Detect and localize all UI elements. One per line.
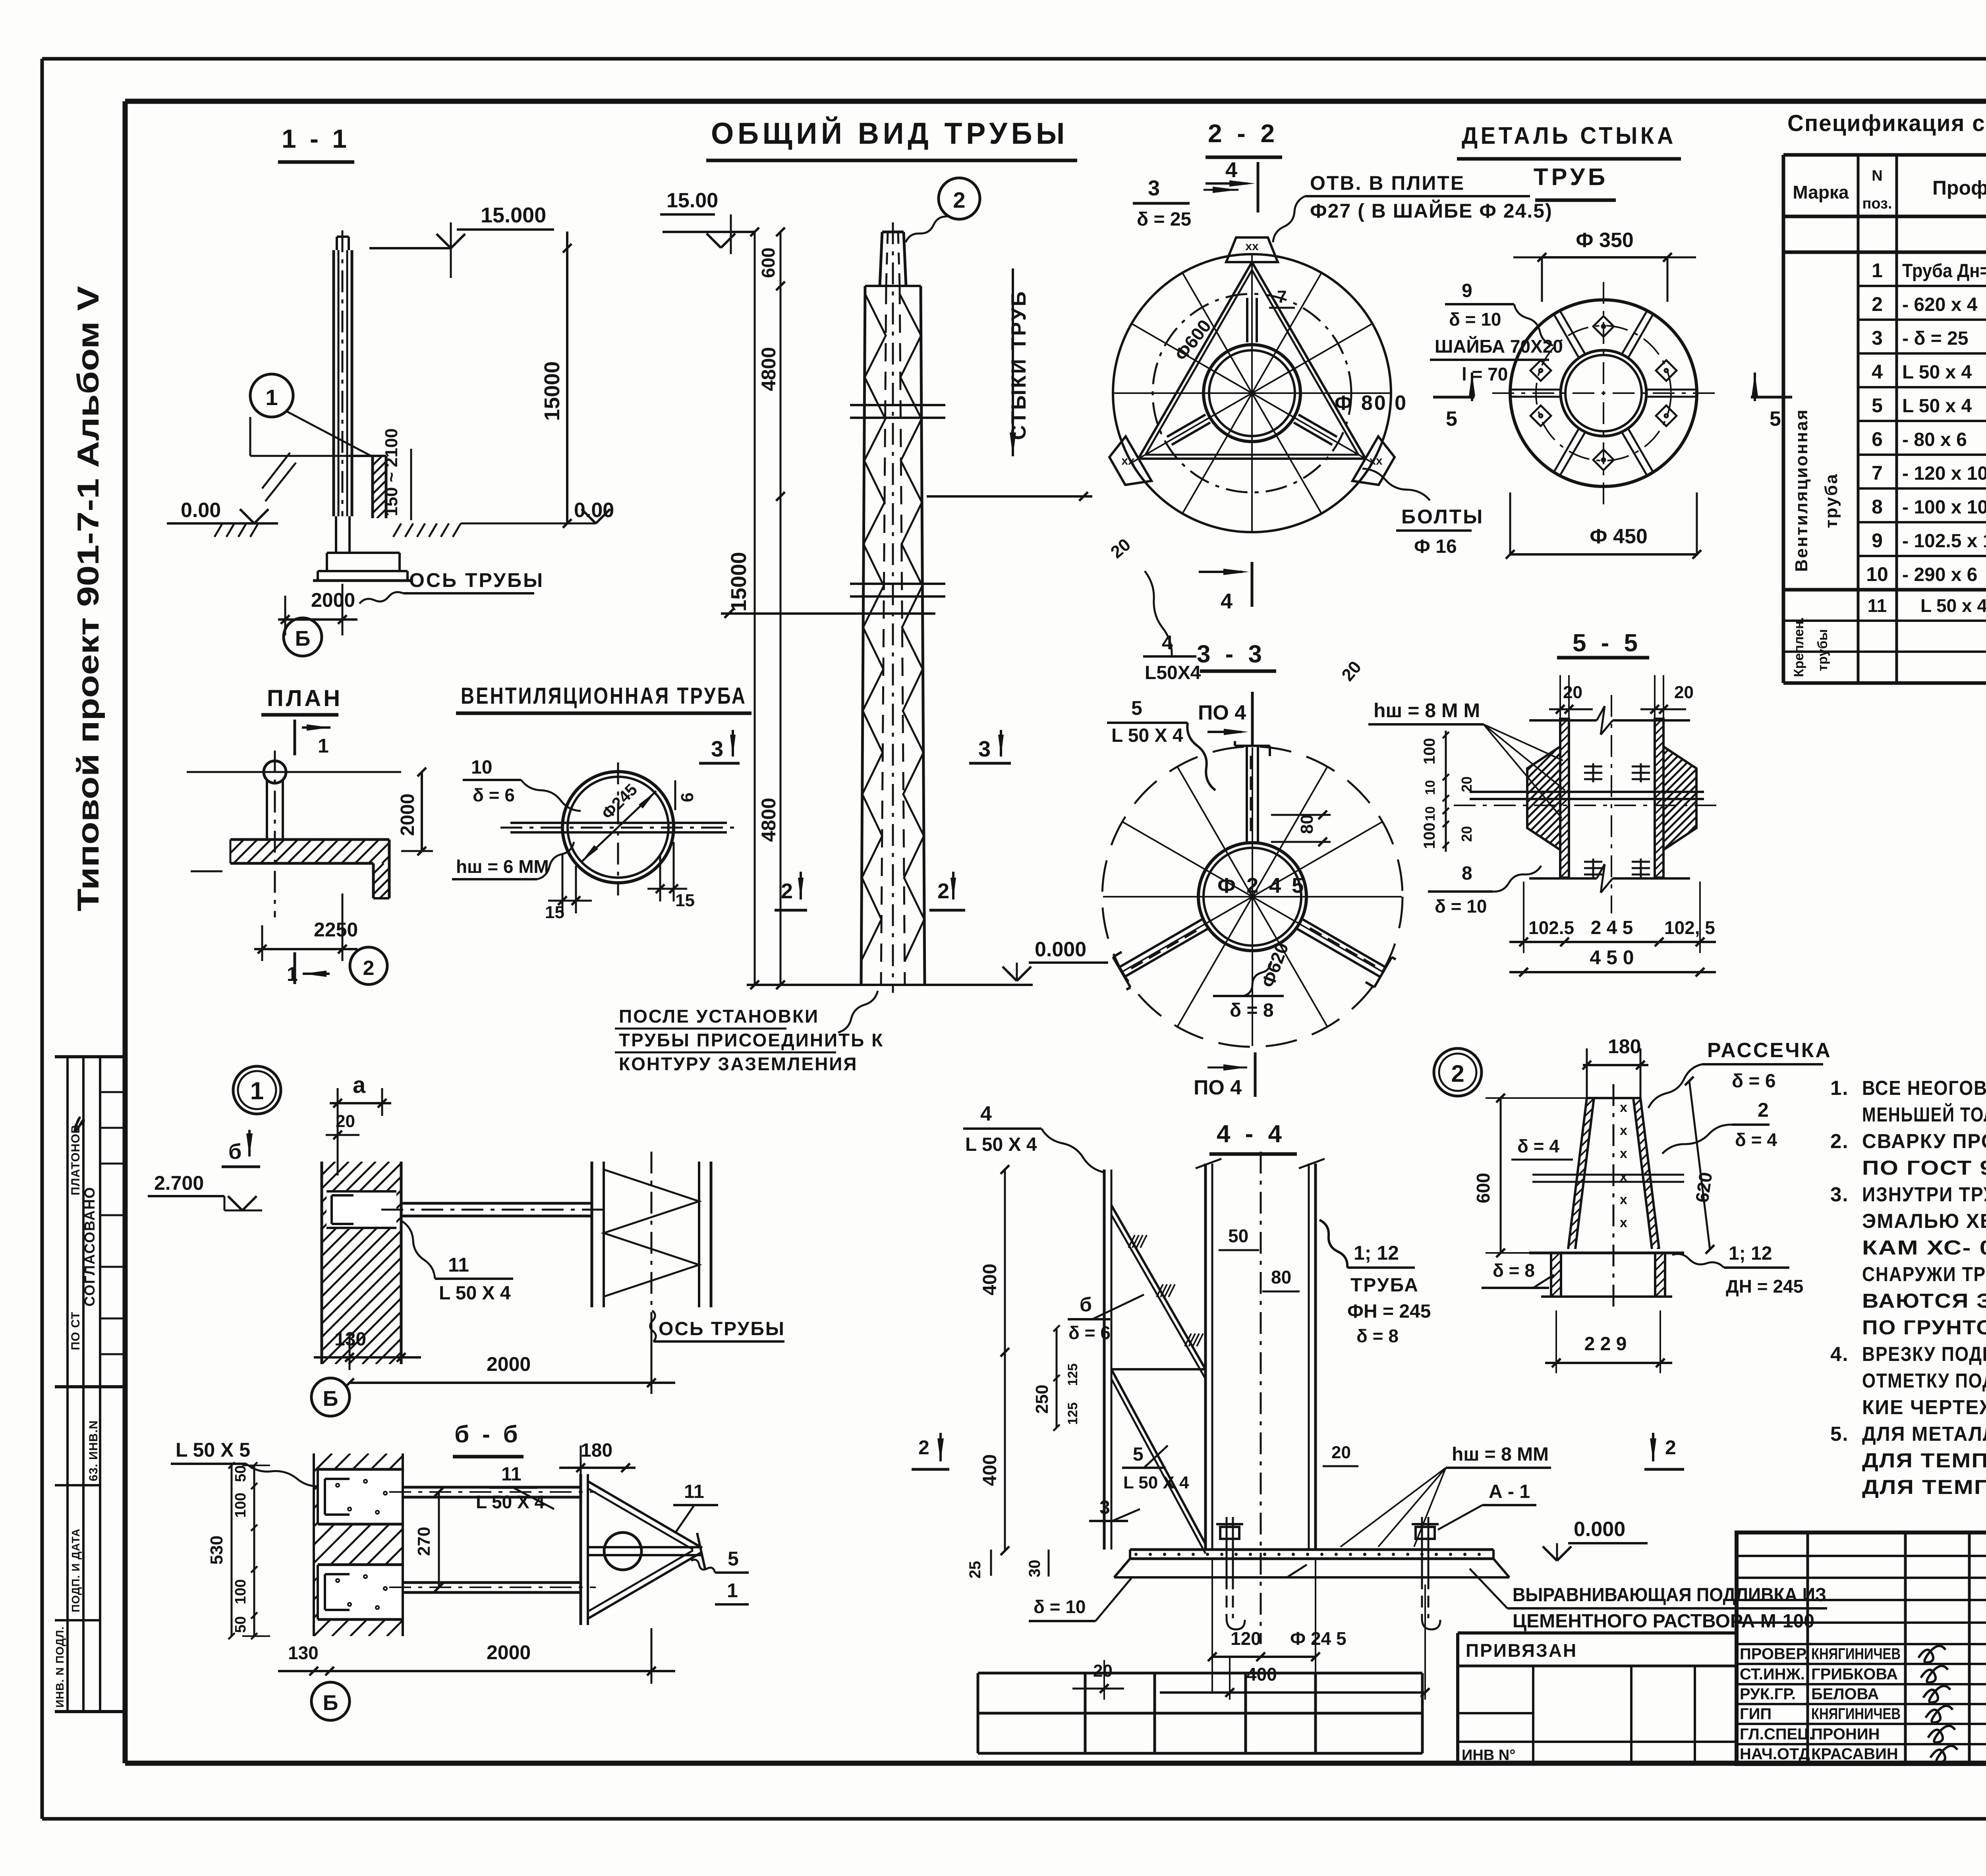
svg-text:ОСЬ ТРУБЫ: ОСЬ ТРУБЫ xyxy=(409,569,544,591)
svg-text:СТЫКИ ТРУБ: СТЫКИ ТРУБ xyxy=(1007,290,1030,440)
svg-text:δ = 4: δ = 4 xyxy=(1517,1136,1559,1156)
svg-text:L 50 X 4: L 50 X 4 xyxy=(1123,1473,1189,1492)
svg-text:20: 20 xyxy=(1331,1443,1351,1462)
svg-text:ГРИБКОВА: ГРИБКОВА xyxy=(1811,1666,1898,1683)
svg-text:100: 100 xyxy=(232,1493,249,1518)
svg-text:20: 20 xyxy=(1459,776,1475,792)
svg-text:- 80 x 6: - 80 x 6 xyxy=(1902,429,1967,450)
svg-text:2: 2 xyxy=(1451,1060,1464,1087)
svg-text:4800: 4800 xyxy=(757,347,780,391)
svg-text:КНЯГИНИЧЕВ: КНЯГИНИЧЕВ xyxy=(1811,1705,1901,1723)
svg-text:КОНТУРУ ЗАЗЕМЛЕНИЯ: КОНТУРУ ЗАЗЕМЛЕНИЯ xyxy=(619,1054,858,1074)
svg-text:4 5 0: 4 5 0 xyxy=(1590,946,1634,969)
svg-text:ТРУБА: ТРУБА xyxy=(1350,1275,1419,1296)
svg-text:- δ = 25: - δ = 25 xyxy=(1902,328,1969,349)
svg-text:1: 1 xyxy=(727,1579,738,1602)
svg-text:ИЗНУТРИ ТРУБА ПОКРЫВАЕТСЯ П: ИЗНУТРИ ТРУБА ПОКРЫВАЕТСЯ ПЕРХЛОРВИНИЛОВ… xyxy=(1862,1183,1986,1206)
svg-text:100: 100 xyxy=(1421,738,1438,764)
svg-text:20: 20 xyxy=(1338,657,1365,685)
svg-text:- 620 x 4: - 620 x 4 xyxy=(1902,294,1978,315)
svg-text:РАССЕЧКА: РАССЕЧКА xyxy=(1707,1039,1832,1062)
svg-text:600: 600 xyxy=(758,247,779,278)
svg-text:ВСЕ НЕОГОВОРЕННЫЕ ШВЫ hШВ = 6: ВСЕ НЕОГОВОРЕННЫЕ ШВЫ hШВ = 6 ММ, НО НЕ … xyxy=(1862,1077,1986,1099)
svg-text:x: x xyxy=(1620,1192,1627,1207)
svg-text:6: 6 xyxy=(678,793,697,802)
svg-text:15000: 15000 xyxy=(540,361,564,421)
svg-text:1: 1 xyxy=(1872,259,1883,282)
svg-text:3: 3 xyxy=(1099,1497,1110,1518)
svg-text:1: 1 xyxy=(250,1077,264,1105)
svg-text:600: 600 xyxy=(1473,1173,1493,1203)
svg-text:L 50 X 5: L 50 X 5 xyxy=(176,1439,250,1461)
svg-text:x: x xyxy=(1620,1123,1627,1138)
svg-text:ФН = 245: ФН = 245 xyxy=(1347,1301,1431,1322)
svg-text:25: 25 xyxy=(966,1561,984,1579)
svg-text:поз.: поз. xyxy=(1862,195,1892,212)
svg-text:80: 80 xyxy=(1297,814,1317,834)
svg-text:ДН = 245: ДН = 245 xyxy=(1726,1276,1803,1297)
svg-text:труба: труба xyxy=(1822,473,1841,528)
svg-text:Марка: Марка xyxy=(1793,182,1849,203)
svg-text:3.: 3. xyxy=(1830,1183,1849,1206)
svg-text:ИНВ N°: ИНВ N° xyxy=(1462,1747,1515,1764)
svg-text:20: 20 xyxy=(336,1112,355,1131)
svg-text:КНЯГИНИЧЕВ: КНЯГИНИЧЕВ xyxy=(1811,1645,1901,1663)
svg-text:δ = 25: δ = 25 xyxy=(1137,209,1191,230)
svg-text:ПО 4: ПО 4 xyxy=(1194,1076,1242,1099)
svg-text:Ф 2 4 5: Ф 2 4 5 xyxy=(1217,874,1306,897)
svg-text:5: 5 xyxy=(728,1548,739,1570)
svg-text:2000: 2000 xyxy=(487,1353,531,1375)
svg-text:L 50 X 4: L 50 X 4 xyxy=(439,1283,511,1304)
svg-text:Профиль: Профиль xyxy=(1932,177,1986,199)
svg-text:ОБЩИЙ ВИД ТРУБЫ: ОБЩИЙ ВИД ТРУБЫ xyxy=(711,116,1068,151)
svg-text:δ = 8: δ = 8 xyxy=(1493,1260,1535,1281)
svg-text:20: 20 xyxy=(1093,1661,1113,1681)
svg-text:КИЕ ЧЕРТЕЖИ.: КИЕ ЧЕРТЕЖИ. xyxy=(1862,1396,1986,1419)
svg-text:2250: 2250 xyxy=(314,919,358,941)
svg-text:5: 5 xyxy=(1872,394,1883,417)
svg-text:ЦЕМЕНТНОГО РАСТВОРА М-100: ЦЕМЕНТНОГО РАСТВОРА М-100 xyxy=(1513,1611,1814,1632)
svg-text:2: 2 xyxy=(1872,293,1883,315)
svg-text:Спецификация стали на 1 штуку: Спецификация стали на 1 штуку каждой мар… xyxy=(1787,110,1986,136)
svg-text:- 290 x 6: - 290 x 6 xyxy=(1902,564,1977,585)
svg-text:530: 530 xyxy=(207,1536,226,1565)
svg-text:2: 2 xyxy=(363,957,375,980)
svg-text:180: 180 xyxy=(1608,1035,1641,1058)
svg-text:СТ.ИНЖ.: СТ.ИНЖ. xyxy=(1740,1666,1805,1683)
svg-text:4: 4 xyxy=(980,1102,992,1125)
svg-text:Ф600: Ф600 xyxy=(1171,316,1215,365)
svg-text:15.000: 15.000 xyxy=(481,203,546,227)
svg-text:10: 10 xyxy=(1423,806,1438,821)
svg-text:1; 12: 1; 12 xyxy=(1354,1242,1399,1264)
svg-text:ДЛЯ ТЕМПЕРАТУР t°Н=-20°С,-30: ДЛЯ ТЕМПЕРАТУР t°Н=-20°С,-30°С - ВСТ 3 К… xyxy=(1862,1449,1986,1472)
svg-text:15: 15 xyxy=(675,891,695,910)
svg-text:hш = 8 ММ: hш = 8 ММ xyxy=(1452,1444,1549,1465)
svg-text:270: 270 xyxy=(414,1527,434,1556)
svg-text:ПРИВЯЗАН: ПРИВЯЗАН xyxy=(1466,1640,1577,1661)
svg-text:А - 1: А - 1 xyxy=(1489,1481,1530,1502)
svg-text:8: 8 xyxy=(1462,863,1472,884)
svg-text:Типовой проект 901-7-1 А: Типовой проект 901-7-1 Альбом V xyxy=(71,286,105,911)
svg-text:Ф620: Ф620 xyxy=(1258,940,1293,990)
svg-text:3: 3 xyxy=(978,736,991,761)
svg-text:ОТМЕТКУ ПОДВОДЯЩИХ ТРУБ СМОТРИ: ОТМЕТКУ ПОДВОДЯЩИХ ТРУБ СМОТРИ ТЕХНОЛОГИ… xyxy=(1862,1369,1986,1392)
svg-text:7: 7 xyxy=(1872,462,1883,484)
svg-text:2: 2 xyxy=(1758,1099,1769,1121)
svg-text:ПО 4: ПО 4 xyxy=(1198,701,1246,724)
svg-text:ПРОНИН: ПРОНИН xyxy=(1811,1725,1880,1743)
svg-text:100: 100 xyxy=(232,1579,249,1604)
svg-text:δ = 10: δ = 10 xyxy=(1449,309,1501,330)
svg-text:Ф 24 5: Ф 24 5 xyxy=(1290,1628,1347,1649)
svg-text:НАЧ.ОТД: НАЧ.ОТД xyxy=(1740,1745,1810,1763)
svg-text:30: 30 xyxy=(1026,1560,1043,1578)
svg-text:ИНВ. N ПОДЛ.: ИНВ. N ПОДЛ. xyxy=(54,1626,66,1708)
svg-text:L 50 X 4: L 50 X 4 xyxy=(1111,725,1183,746)
svg-text:4 - 4: 4 - 4 xyxy=(1217,1120,1286,1148)
svg-text:0.000: 0.000 xyxy=(1574,1518,1625,1541)
svg-text:0.00: 0.00 xyxy=(181,499,221,522)
svg-text:Ф 350: Ф 350 xyxy=(1576,229,1634,252)
svg-text:2.: 2. xyxy=(1830,1130,1849,1152)
svg-text:2.700: 2.700 xyxy=(154,1172,204,1194)
svg-text:L 50 x 4: L 50 x 4 xyxy=(1920,595,1986,616)
svg-text:xx: xx xyxy=(1121,454,1135,467)
svg-text:δ = 4: δ = 4 xyxy=(1735,1129,1777,1150)
svg-text:ПО ГОСТ 9467-75.: ПО ГОСТ 9467-75. xyxy=(1862,1156,1986,1179)
svg-text:L 50 x 4: L 50 x 4 xyxy=(1902,362,1972,383)
svg-text:ВЕНТИЛЯЦИОННАЯ ТРУБА: ВЕНТИЛЯЦИОННАЯ ТРУБА xyxy=(461,683,747,709)
svg-text:4: 4 xyxy=(1872,361,1883,383)
svg-text:Б: Б xyxy=(323,1691,338,1715)
svg-text:400: 400 xyxy=(979,1264,1001,1295)
svg-text:б: б xyxy=(228,1140,241,1164)
svg-text:6: 6 xyxy=(1872,428,1883,450)
svg-text:ВРЕЗКУ ПОДВОДЯЩИХ ТРУБ ВЫПОЛНЯ: ВРЕЗКУ ПОДВОДЯЩИХ ТРУБ ВЫПОЛНЯТЬ ПО МЕСТ… xyxy=(1862,1343,1986,1365)
svg-text:2: 2 xyxy=(937,879,949,903)
svg-text:11: 11 xyxy=(501,1464,522,1485)
svg-text:СВАРКУ ПРОИЗВОДИТЬ ЭЛЕКТРОДА: СВАРКУ ПРОИЗВОДИТЬ ЭЛЕКТРОДАМИ ТИПА Э-42 xyxy=(1862,1130,1986,1152)
svg-text:L 50 x 4: L 50 x 4 xyxy=(1902,396,1972,417)
svg-text:РУК.ГР.: РУК.ГР. xyxy=(1740,1685,1796,1703)
svg-text:3 - 3: 3 - 3 xyxy=(1197,641,1266,668)
svg-text:ПОСЛЕ УСТАНОВКИ: ПОСЛЕ УСТАНОВКИ xyxy=(619,1006,819,1027)
svg-text:180: 180 xyxy=(581,1440,612,1461)
svg-text:δ = 8: δ = 8 xyxy=(1356,1326,1399,1346)
svg-text:ПРОВЕР.: ПРОВЕР. xyxy=(1740,1645,1808,1663)
svg-text:L 50 X 4: L 50 X 4 xyxy=(476,1492,545,1512)
svg-text:3: 3 xyxy=(711,736,723,761)
svg-text:20: 20 xyxy=(1563,683,1582,702)
svg-text:120: 120 xyxy=(1231,1628,1261,1649)
svg-text:5: 5 xyxy=(1446,407,1457,430)
svg-text:МЕНЬШЕЙ ТОЛЩИНЫ СВАРИВАЕМЫХ ЭЛ: МЕНЬШЕЙ ТОЛЩИНЫ СВАРИВАЕМЫХ ЭЛЕМЕНТОВ. xyxy=(1862,1103,1986,1126)
svg-text:l = 70: l = 70 xyxy=(1462,364,1508,384)
svg-text:50: 50 xyxy=(232,1616,249,1633)
svg-text:10: 10 xyxy=(1866,563,1888,585)
svg-text:ВАЮТСЯ ЭМАЛЬЮ ХВ - 1100 (: ВАЮТСЯ ЭМАЛЬЮ ХВ - 1100 ( ГОСТ 6995 -70) xyxy=(1862,1289,1986,1312)
svg-text:3: 3 xyxy=(1148,176,1160,200)
svg-text:5: 5 xyxy=(1131,697,1142,719)
svg-text:hш = 6 ММ: hш = 6 ММ xyxy=(456,856,549,877)
svg-text:N: N xyxy=(1872,168,1882,184)
svg-text:125: 125 xyxy=(1065,1402,1080,1425)
svg-text:15.00: 15.00 xyxy=(667,189,718,212)
svg-text:hш = 8 М М: hш = 8 М М xyxy=(1374,699,1480,722)
svg-text:ВЫРАВНИВАЮЩАЯ ПОДЛИВКА ИЗ: ВЫРАВНИВАЮЩАЯ ПОДЛИВКА ИЗ xyxy=(1513,1585,1826,1606)
svg-text:620: 620 xyxy=(1691,1171,1716,1204)
svg-text:Б: Б xyxy=(323,1387,338,1411)
svg-text:трубы: трубы xyxy=(1815,629,1830,671)
svg-text:11: 11 xyxy=(1868,595,1887,616)
svg-text:ТРУБЫ ПРИСОЕДИНИТЬ К: ТРУБЫ ПРИСОЕДИНИТЬ К xyxy=(619,1030,884,1050)
svg-text:11: 11 xyxy=(684,1481,704,1502)
svg-text:50: 50 xyxy=(232,1465,249,1482)
svg-text:Ф 16: Ф 16 xyxy=(1414,536,1457,557)
svg-text:ГИП: ГИП xyxy=(1740,1705,1772,1723)
svg-text:1; 12: 1; 12 xyxy=(1729,1243,1772,1264)
svg-text:δ = 6: δ = 6 xyxy=(473,785,515,805)
svg-text:2000: 2000 xyxy=(487,1641,531,1664)
svg-text:1: 1 xyxy=(318,735,329,757)
svg-text:СНАРУЖИ ТРУБА И СТАЛЬНЫЕ КОНСТ: СНАРУЖИ ТРУБА И СТАЛЬНЫЕ КОНСТРУКЦИИ ОКР… xyxy=(1862,1263,1986,1285)
svg-text:ГЛ.СПЕЦ.: ГЛ.СПЕЦ. xyxy=(1740,1725,1814,1743)
svg-text:Вентиляционная: Вентиляционная xyxy=(1792,409,1811,572)
svg-text:L50X4: L50X4 xyxy=(1145,662,1201,683)
svg-text:- 120 x 10: - 120 x 10 xyxy=(1902,463,1986,484)
svg-text:ТРУБ: ТРУБ xyxy=(1534,164,1608,190)
svg-text:ПОДП. И ДАТА: ПОДП. И ДАТА xyxy=(70,1529,82,1612)
svg-text:1.: 1. xyxy=(1830,1077,1849,1099)
svg-text:2000: 2000 xyxy=(311,589,355,611)
svg-text:Труба Дн=245; δ=8: Труба Дн=245; δ=8 xyxy=(1902,261,1986,282)
svg-text:10: 10 xyxy=(471,757,492,778)
svg-text:δ = 8: δ = 8 xyxy=(1230,1000,1274,1021)
svg-text:δ = 6: δ = 6 xyxy=(1732,1071,1776,1092)
svg-text:5: 5 xyxy=(1770,407,1781,430)
svg-text:б - б: б - б xyxy=(454,1421,521,1448)
svg-text:2: 2 xyxy=(781,879,793,903)
svg-text:7: 7 xyxy=(1277,287,1287,307)
svg-text:Б: Б xyxy=(295,627,311,650)
svg-text:400: 400 xyxy=(1246,1664,1277,1685)
svg-text:9: 9 xyxy=(1462,280,1472,301)
svg-text:x: x xyxy=(1620,1100,1627,1115)
svg-text:Ф27 ( В ШАЙБЕ Ф 24.5): Ф27 ( В ШАЙБЕ Ф 24.5) xyxy=(1310,199,1553,222)
svg-text:125: 125 xyxy=(1065,1363,1080,1386)
svg-text:Ф 80 0: Ф 80 0 xyxy=(1335,392,1408,415)
svg-text:ЭМАЛЬЮ ХВ-785 (ГОСТ 7313-75) В: ЭМАЛЬЮ ХВ-785 (ГОСТ 7313-75) В 3 СЛОЯ ПО… xyxy=(1862,1210,1986,1232)
svg-text:1: 1 xyxy=(287,963,298,985)
svg-text:4800: 4800 xyxy=(757,798,780,842)
svg-text:20: 20 xyxy=(1674,683,1694,702)
svg-text:Ф245: Ф245 xyxy=(598,780,641,823)
svg-text:ОСЬ ТРУБЫ: ОСЬ ТРУБЫ xyxy=(659,1318,785,1339)
svg-text:Креплен.: Креплен. xyxy=(1791,617,1806,677)
svg-text:80: 80 xyxy=(1271,1267,1291,1287)
svg-text:2: 2 xyxy=(1665,1436,1676,1459)
svg-text:50: 50 xyxy=(1228,1226,1248,1246)
svg-text:δ = 6: δ = 6 xyxy=(1068,1322,1111,1343)
svg-text:xx: xx xyxy=(1245,240,1259,253)
svg-text:250: 250 xyxy=(1032,1385,1052,1414)
svg-text:КАМ ХС- 010; ХС- 068; ХВ- 0: КАМ ХС- 010; ХС- 068; ХВ- 050. xyxy=(1862,1236,1986,1259)
svg-text:63. ИНВ.N: 63. ИНВ.N xyxy=(87,1420,100,1481)
svg-text:БОЛТЫ: БОЛТЫ xyxy=(1401,506,1484,528)
svg-text:5 - 5: 5 - 5 xyxy=(1573,629,1642,657)
svg-text:4: 4 xyxy=(1225,158,1237,182)
svg-text:5.: 5. xyxy=(1830,1422,1849,1445)
svg-text:δ = 10: δ = 10 xyxy=(1435,896,1487,917)
svg-text:400: 400 xyxy=(979,1454,1001,1486)
svg-text:ПЛАТОНОВ: ПЛАТОНОВ xyxy=(69,1125,82,1195)
svg-text:б: б xyxy=(1080,1293,1092,1316)
svg-text:КРАСАВИН: КРАСАВИН xyxy=(1811,1745,1898,1763)
svg-text:ДЛЯ МЕТАЛЛОКОНСТРУКЦИЙ ПРИНЯ: ДЛЯ МЕТАЛЛОКОНСТРУКЦИЙ ПРИНЯТА СТАЛЬ МАР… xyxy=(1862,1422,1986,1445)
svg-text:15000: 15000 xyxy=(727,552,751,612)
svg-text:102, 5: 102, 5 xyxy=(1664,917,1715,938)
svg-text:5: 5 xyxy=(1133,1444,1144,1465)
svg-text:x: x xyxy=(1620,1215,1627,1230)
svg-text:ПО ГРУНТОВКЕ ГФ- 020.: ПО ГРУНТОВКЕ ГФ- 020. xyxy=(1862,1316,1986,1339)
svg-text:1: 1 xyxy=(265,385,278,410)
svg-text:2: 2 xyxy=(953,187,965,212)
svg-text:ОТВ. В ПЛИТЕ: ОТВ. В ПЛИТЕ xyxy=(1310,172,1465,194)
svg-text:СОГЛАСОВАНО: СОГЛАСОВАНО xyxy=(81,1187,98,1307)
svg-text:4: 4 xyxy=(1221,589,1233,613)
svg-text:2000: 2000 xyxy=(397,793,418,836)
svg-text:0.000: 0.000 xyxy=(1035,938,1086,961)
svg-text:20: 20 xyxy=(1107,535,1134,562)
svg-text:102.5: 102.5 xyxy=(1528,917,1574,938)
svg-text:4.: 4. xyxy=(1830,1343,1849,1365)
svg-text:10: 10 xyxy=(1423,780,1438,795)
svg-text:ДЛЯ ТЕМПЕРАТУР tН°= -40°С -: ДЛЯ ТЕМПЕРАТУР tН°= -40°С - ВСТ 3 ПС 6. xyxy=(1862,1476,1986,1498)
svg-text:БЕЛОВА: БЕЛОВА xyxy=(1811,1685,1879,1703)
svg-text:xx: xx xyxy=(1369,454,1383,467)
svg-text:L 50 X 4: L 50 X 4 xyxy=(965,1134,1037,1155)
svg-text:2: 2 xyxy=(918,1436,929,1459)
svg-text:2 - 2: 2 - 2 xyxy=(1208,119,1279,148)
svg-text:- 100 x 10: - 100 x 10 xyxy=(1902,497,1986,518)
svg-text:100: 100 xyxy=(1421,822,1438,849)
svg-text:130: 130 xyxy=(288,1642,319,1663)
svg-text:ДЕТАЛЬ СТЫКА: ДЕТАЛЬ СТЫКА xyxy=(1462,122,1676,149)
svg-text:15: 15 xyxy=(545,903,564,922)
svg-text:x: x xyxy=(1620,1146,1627,1161)
svg-text:δ = 10: δ = 10 xyxy=(1034,1596,1086,1617)
svg-text:2 2 9: 2 2 9 xyxy=(1584,1334,1627,1355)
svg-text:3: 3 xyxy=(1872,327,1883,349)
svg-text:9: 9 xyxy=(1872,529,1883,552)
svg-text:a: a xyxy=(353,1072,366,1098)
svg-text:ПО СТ: ПО СТ xyxy=(69,1312,82,1350)
svg-text:- 102.5 x 10: - 102.5 x 10 xyxy=(1902,531,1986,552)
svg-text:ПЛАН: ПЛАН xyxy=(267,685,342,711)
svg-text:2 4 5: 2 4 5 xyxy=(1591,917,1633,938)
svg-text:1 - 1: 1 - 1 xyxy=(282,124,350,153)
svg-text:8: 8 xyxy=(1872,496,1883,518)
svg-text:Ф 450: Ф 450 xyxy=(1590,525,1648,548)
svg-text:20: 20 xyxy=(1459,826,1475,842)
svg-text:11: 11 xyxy=(448,1254,469,1276)
